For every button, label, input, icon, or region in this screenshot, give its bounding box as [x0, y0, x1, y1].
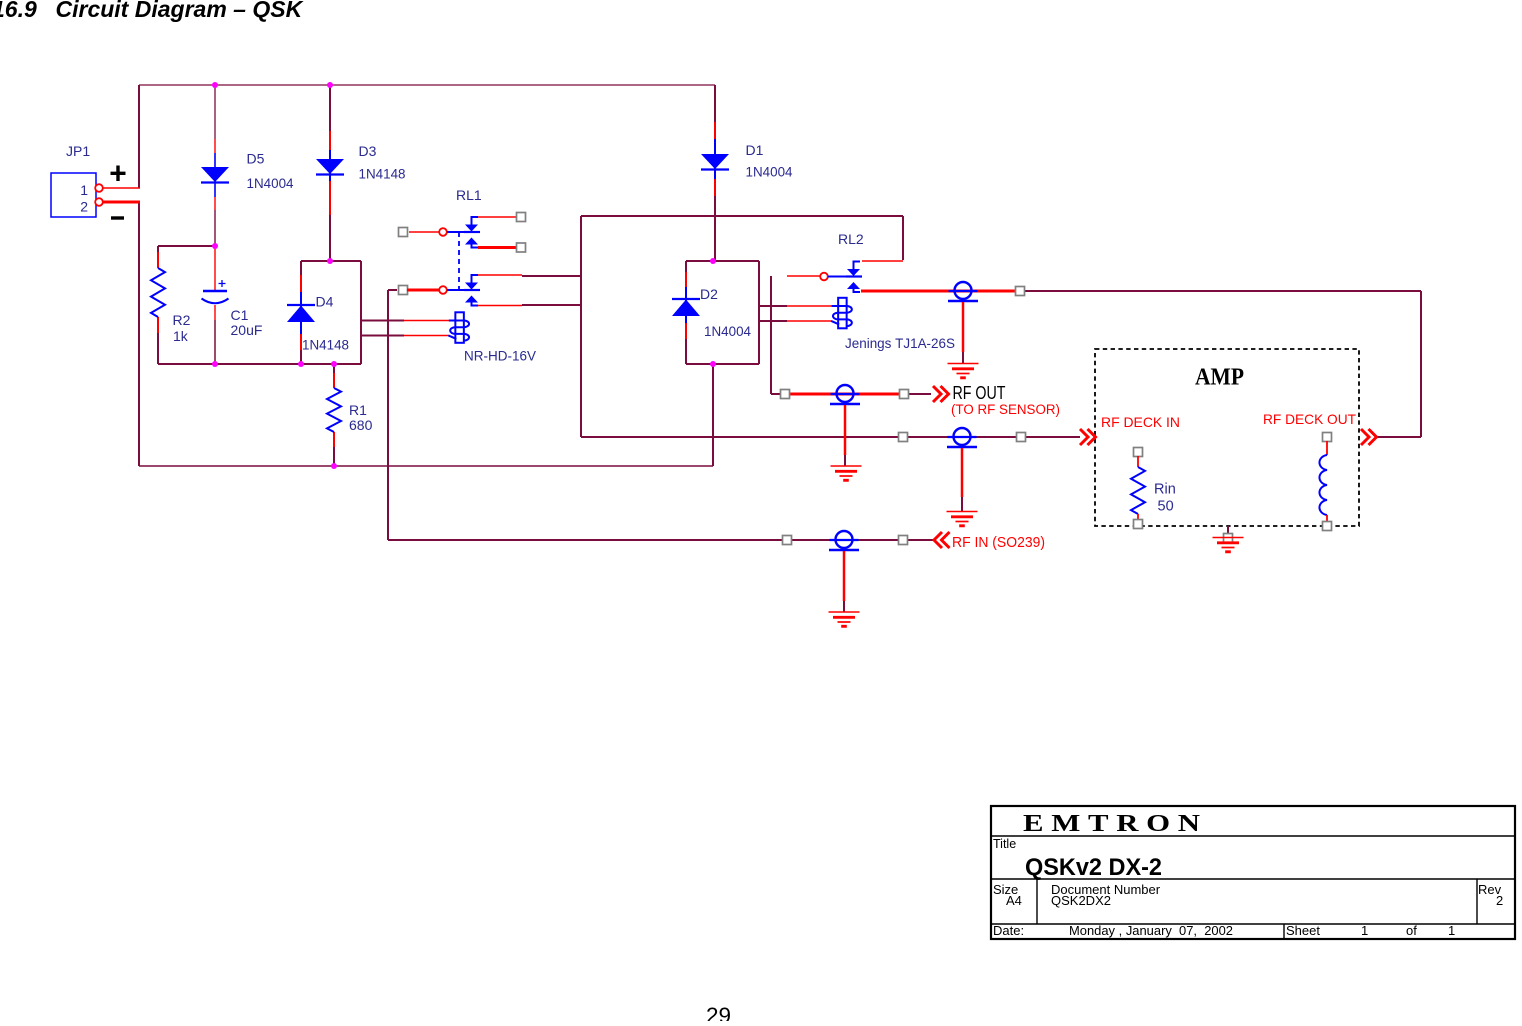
svg-text:JP1: JP1 [66, 143, 90, 159]
svg-text:Date:: Date: [993, 923, 1024, 938]
svg-text:2: 2 [80, 199, 88, 215]
svg-text:29: 29 [706, 1003, 731, 1021]
svg-text:Jenings TJ1A-26S: Jenings TJ1A-26S [845, 335, 955, 351]
svg-text:Monday , January 07, 2002: Monday , January 07, 2002 [1069, 923, 1233, 938]
svg-text:C1: C1 [231, 307, 249, 323]
svg-text:50: 50 [1158, 499, 1174, 515]
svg-text:RF OUT: RF OUT [953, 383, 1006, 403]
svg-text:1: 1 [1448, 923, 1455, 938]
svg-text:D3: D3 [359, 143, 377, 159]
svg-text:QSKv2 DX-2: QSKv2 DX-2 [1025, 854, 1162, 881]
svg-text:20uF: 20uF [231, 322, 263, 338]
svg-text:AMP: AMP [1195, 364, 1244, 391]
svg-text:1k: 1k [173, 328, 189, 344]
svg-text:Sheet: Sheet [1286, 923, 1320, 938]
svg-text:Title: Title [993, 837, 1016, 851]
svg-text:RF IN (SO239): RF IN (SO239) [952, 534, 1045, 551]
svg-text:D4: D4 [316, 294, 334, 310]
svg-text:Circuit Diagram – QSK: Circuit Diagram – QSK [56, 0, 304, 22]
svg-text:1N4148: 1N4148 [359, 166, 406, 182]
svg-text:of: of [1406, 923, 1417, 938]
svg-text:D5: D5 [247, 151, 265, 167]
svg-text:1: 1 [1361, 923, 1368, 938]
svg-text:1N4004: 1N4004 [746, 164, 793, 180]
svg-text:R1: R1 [349, 402, 367, 418]
svg-text:D1: D1 [746, 142, 764, 158]
svg-text:RF DECK OUT: RF DECK OUT [1263, 411, 1356, 427]
svg-text:RF DECK IN: RF DECK IN [1101, 414, 1180, 430]
svg-text:E M T R O N: E M T R O N [1023, 810, 1200, 837]
svg-text:R2: R2 [173, 312, 191, 328]
svg-text:A4: A4 [1006, 893, 1022, 908]
svg-text:1N4148: 1N4148 [302, 337, 349, 353]
svg-text:1: 1 [80, 182, 88, 198]
svg-text:RL2: RL2 [838, 231, 864, 247]
svg-text:NR-HD-16V: NR-HD-16V [464, 348, 537, 364]
svg-text:QSK2DX2: QSK2DX2 [1051, 893, 1111, 908]
svg-text:2: 2 [1496, 893, 1503, 908]
svg-text:1N4004: 1N4004 [704, 323, 751, 339]
svg-text:RL1: RL1 [456, 187, 482, 203]
svg-text:(TO RF SENSOR): (TO RF SENSOR) [951, 402, 1060, 417]
svg-text:1N4004: 1N4004 [247, 175, 294, 191]
svg-text:680: 680 [349, 417, 373, 433]
svg-text:Rin: Rin [1154, 482, 1176, 498]
svg-text:16.9: 16.9 [0, 0, 37, 22]
svg-text:D2: D2 [700, 286, 718, 302]
